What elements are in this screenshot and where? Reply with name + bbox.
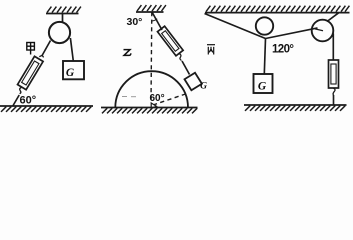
ground hatching fig3 — [245, 106, 345, 111]
label yi (Chinese) — [124, 50, 131, 56]
ceiling fig1 — [46, 13, 79, 15]
wire vertical rope to G fig3 — [264, 39, 265, 75]
ceiling fig2 — [136, 11, 164, 13]
hook bottom fig2 — [179, 54, 182, 61]
svg-text:60°: 60° — [150, 93, 165, 104]
wire right vertical rope fig3 — [332, 34, 334, 61]
weight G box fig3 — [254, 74, 273, 93]
strut hanger P3 — [327, 13, 339, 22]
spring scale hook top fig1 — [39, 55, 43, 57]
ceiling hatching fig2 — [137, 5, 166, 11]
pulley P2 (on rope) — [256, 17, 273, 34]
wire rope to block fig2 — [182, 61, 190, 75]
ceiling hatching fig1 — [47, 7, 81, 13]
wire rope top fig2 — [152, 12, 162, 30]
svg-text:G: G — [200, 81, 207, 91]
label jia (Chinese) — [27, 43, 35, 55]
ceiling fig3 — [205, 12, 350, 14]
svg-text:G: G — [66, 67, 75, 79]
ceiling hatching fig3 — [206, 6, 349, 12]
pulley P3 (top right) — [312, 20, 334, 42]
angle arc fig2 — [152, 19, 158, 21]
label bing (Chinese) — [207, 45, 215, 55]
block on dome fig2 — [184, 73, 201, 91]
spring scale S2 — [157, 26, 183, 56]
wire anchor to ground — [333, 95, 335, 105]
svg-text:60°: 60° — [20, 95, 37, 107]
hook bottom S3 — [333, 88, 335, 96]
ground fig2 — [101, 107, 198, 109]
spring scale S3 — [329, 60, 339, 88]
ground fig3 — [244, 104, 347, 106]
ground hatching fig2 — [102, 108, 197, 113]
wire left rope fig3 — [205, 14, 266, 39]
pulley hanger stub — [62, 14, 64, 22]
svg-text:120°: 120° — [272, 44, 294, 56]
wire upper left rope — [42, 41, 51, 57]
dome (semicircle) — [115, 71, 188, 107]
pulley P1 — [49, 22, 70, 43]
faint dashes inside dome — [122, 96, 136, 98]
wire right rope fig3 — [266, 28, 318, 39]
spring scale S1 — [18, 56, 44, 89]
dashed 60deg radius fig2 — [153, 94, 186, 105]
svg-text:30°: 30° — [127, 16, 143, 28]
weight G box fig1 — [63, 61, 84, 79]
hook bottom fig1 — [20, 87, 22, 94]
wire right rope to weight — [70, 38, 73, 61]
spoke inside P3 — [315, 29, 323, 31]
wire lower rope to ground — [13, 95, 19, 106]
dashed vertical line fig2 — [150, 12, 153, 103]
vertex arrowhead fig2 — [151, 103, 156, 108]
ground hatching fig1 — [1, 107, 91, 112]
svg-text:G: G — [258, 81, 267, 93]
ground fig1 — [0, 105, 93, 107]
